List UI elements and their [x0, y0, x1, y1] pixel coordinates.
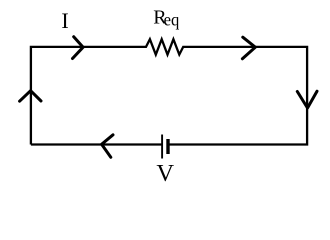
svg-text:I: I: [61, 8, 68, 33]
svg-text:eq: eq: [164, 10, 180, 29]
svg-text:V: V: [156, 160, 174, 187]
